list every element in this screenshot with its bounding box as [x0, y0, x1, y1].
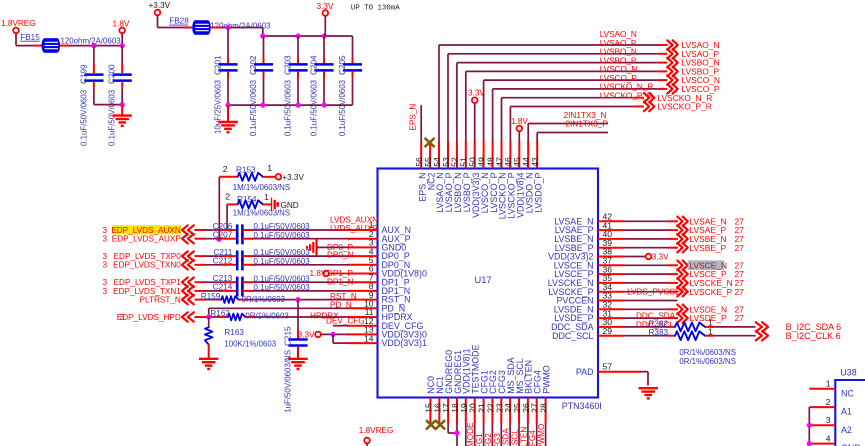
U17 pin 28 PWMO stub [539, 365, 552, 423]
junction GNDREG [454, 430, 459, 435]
junction R153 vertical at row AUX_P [216, 237, 221, 242]
svg-text:1.8VREG: 1.8VREG [1, 19, 36, 28]
svg-text:3: 3 [102, 252, 107, 261]
off-page connector LVSAO_N [667, 40, 719, 50]
capacitor C207 [213, 231, 311, 245]
svg-text:UP TO 130mA: UP TO 130mA [351, 5, 400, 13]
wire net LVSCKE_P from pin 34 [625, 291, 679, 293]
U17 pin 30 DDC_SDA stub [551, 317, 624, 332]
svg-text:3: 3 [102, 235, 107, 244]
ferrite bead FB15 [20, 33, 121, 53]
wire pin 28 continuation [545, 424, 547, 446]
svg-text:EDP_LVDS_AUXN: EDP_LVDS_AUXN [111, 226, 181, 235]
U17 pin 21 CFG1 stub [477, 370, 490, 423]
wire FB28 output [211, 28, 263, 37]
wire net LVSCO_P from pin 48 [493, 74, 668, 142]
svg-text:0R/1%/0603: 0R/1%/0603 [245, 311, 289, 320]
svg-text:0.1uF/50V/0603: 0.1uF/50V/0603 [283, 79, 292, 136]
wire pin 27 continuation [536, 424, 538, 446]
U17 pin 15 NC0 stub [423, 376, 436, 424]
junction HPD node [206, 314, 211, 319]
svg-text:LVDS_AUXN: LVDS_AUXN [330, 215, 378, 224]
wire C199 bottom to C200 bottom [94, 104, 122, 106]
off-page connector LVSAE_N [677, 216, 744, 226]
svg-text:LVSCKO_N_R: LVSCKO_N_R [600, 83, 654, 92]
U17 pin 33 PVCCEN stub [557, 291, 625, 306]
wire pin 20 continuation [474, 424, 476, 446]
svg-text:LVSCKO_P_R: LVSCKO_P_R [600, 92, 653, 101]
ground at pin 3 GND0 [307, 239, 349, 256]
U17 pin 9 RST_N stub [348, 290, 411, 305]
svg-text:PLTRST_N: PLTRST_N [140, 296, 181, 305]
svg-text:C201: C201 [213, 55, 222, 75]
off-page connector LVSBE_P [677, 243, 744, 253]
no-connect X on pin 16 NC1 [435, 420, 445, 429]
off-page connector LVSCKE_P [677, 287, 744, 297]
svg-text:R382: R382 [649, 319, 669, 328]
note UP TO 130mA [351, 5, 400, 13]
U17 pin 16 NC1 stub [432, 376, 445, 424]
wire net LVSDE_P from pin 31 [625, 317, 679, 319]
U17 pin 34 LVSCKE_P stub [548, 282, 624, 297]
svg-text:R159: R159 [201, 292, 221, 301]
svg-text:EDP_LVDS_TXN0: EDP_LVDS_TXN0 [113, 261, 181, 270]
wire net LVSAO_N from pin 54 [439, 30, 667, 142]
svg-text:LVSCO_P: LVSCO_P [600, 74, 638, 83]
svg-text:3.3V: 3.3V [652, 253, 669, 262]
svg-text:MS_SCL: MS_SCL [511, 429, 520, 446]
net label LVDS_PVCCEN [627, 288, 687, 297]
svg-text:C200: C200 [107, 64, 116, 84]
wire net LVSBO_N from pin 52 [457, 48, 667, 142]
wire FB15 to 1.8V rail [60, 45, 122, 47]
junction 3.3V branch [330, 332, 335, 337]
svg-text:CFG3: CFG3 [493, 433, 502, 446]
svg-text:1M/1%/0603/NS: 1M/1%/0603/NS [233, 209, 290, 218]
U17 pin 26 BKLTEN stub [521, 360, 534, 424]
U17 pin 54 LVSAO_N stub [432, 141, 445, 213]
U17 pin 49 LVSCO_N stub [476, 141, 489, 213]
U17 pin 7 DP1_P stub [348, 272, 410, 287]
off-page connector EDP_LVDS_TXN1 [102, 286, 193, 296]
U17 pin 13 VDD(3V3)0 stub [348, 325, 427, 340]
off-page connector LVSBE_N [677, 234, 744, 244]
power symbol +3.3V [149, 1, 171, 15]
wire U38 pins 2-4 chain [808, 407, 810, 446]
off-page connector LVSBO_P [667, 67, 719, 77]
U17 pin 37 LVSCE_N stub [554, 256, 625, 271]
net label CFG1 [475, 433, 484, 446]
wire 1.8VREG to FB15 [16, 33, 42, 46]
capacitor C199 [79, 46, 103, 146]
wire net LVSAE_P from pin 41 [625, 229, 679, 231]
U17 pin 57 PAD [576, 361, 648, 385]
svg-text:LVSBE_P: LVSBE_P [690, 243, 727, 253]
net label CFG2 [484, 433, 493, 446]
resistor R153 [219, 163, 290, 192]
wire PD_N from HPD node [209, 308, 349, 317]
junction bottom rail [260, 103, 265, 108]
net label DP1_N [327, 278, 353, 287]
capacitor C212 [213, 257, 311, 271]
net label DDC_SDA [636, 312, 676, 321]
resistor R154 [225, 192, 290, 218]
wire pin 23 continuation [500, 424, 502, 446]
svg-text:R162: R162 [210, 309, 230, 318]
junction at C200 bottom [120, 102, 125, 107]
ground below R163 [199, 359, 219, 369]
svg-text:4: 4 [826, 434, 831, 444]
net label HPDRX [310, 311, 339, 320]
junction rail at C202 [260, 33, 265, 38]
svg-text:3: 3 [826, 415, 831, 425]
U17 pin 22 CFG2 stub [485, 370, 498, 423]
wire C206 row left [195, 229, 238, 231]
svg-text:C211: C211 [213, 248, 232, 257]
U17 pin 3 GND0 stub [348, 238, 407, 253]
svg-text:LVSBO_P: LVSBO_P [600, 56, 637, 65]
ground below C201 [218, 122, 238, 132]
wire net LVSCE_N from pin 37 [625, 264, 679, 266]
svg-text:1.8V: 1.8V [113, 20, 130, 29]
svg-text:BKLTEN: BKLTEN [519, 427, 528, 446]
U17 pin 1 AUX_N stub [348, 220, 412, 235]
svg-text:120ohm/2A/0603: 120ohm/2A/0603 [210, 21, 271, 30]
svg-text:27: 27 [735, 287, 745, 297]
U17 pin 14 VDD(3V3)1 stub [348, 333, 427, 348]
junction bottom rail [296, 103, 301, 108]
capacitor C206 [213, 222, 311, 236]
svg-text:+3.3V: +3.3V [149, 1, 171, 10]
capacitor C213 [213, 274, 311, 288]
capacitor C201 [213, 28, 237, 134]
junction on 1.8V rail at C199 [91, 43, 96, 48]
svg-text:1.8VREG: 1.8VREG [359, 426, 394, 435]
off-page connector LVSCKO_N_R [644, 93, 712, 103]
U17 pin 11 HPDRX stub [348, 307, 413, 322]
U17 pin 47 LVSCKO_N stub [494, 141, 507, 219]
net label PWMO [537, 424, 546, 446]
resistor R163 [205, 317, 277, 359]
U17 pin 2 AUX_P stub [348, 229, 411, 244]
off-page connector LVSCE_P [677, 269, 744, 279]
svg-text:C214: C214 [213, 283, 233, 292]
svg-text:14: 14 [364, 333, 374, 343]
svg-text:PAD: PAD [576, 367, 594, 377]
svg-text:+3.3V: +3.3V [282, 173, 304, 182]
off-page connector EDP_LVDS_TXP1 [102, 278, 193, 288]
svg-text:3.3V: 3.3V [298, 330, 315, 339]
wire cap bottom rail [228, 104, 353, 106]
svg-text:LVSAO_P: LVSAO_P [600, 39, 637, 48]
svg-text:1.8V: 1.8V [511, 117, 528, 126]
power symbol 1.8V [113, 20, 130, 46]
wire net LVSCE_P from pin 36 [625, 273, 679, 275]
svg-text:B_I2C_CLK 6: B_I2C_CLK 6 [786, 331, 841, 341]
resistor R383 [625, 326, 756, 340]
wire net LVSCO_N from pin 49 [484, 65, 668, 141]
off-page connector LVSBO_N [667, 58, 719, 68]
svg-text:C213: C213 [213, 274, 233, 283]
junction U38 pin 4 [807, 441, 812, 446]
svg-text:TESTMODE: TESTMODE [466, 422, 475, 446]
svg-text:0.1uF/50V/0603: 0.1uF/50V/0603 [309, 79, 318, 136]
U17 pin 19 VDD(1V8)1 stub [459, 348, 472, 423]
junction U38 pin 3 [807, 423, 812, 428]
wire 3.3V distribution rail [263, 35, 353, 37]
wire +3.3V to FB28 [158, 15, 193, 27]
net label DDC_SCL [636, 320, 675, 329]
svg-text:C207: C207 [213, 231, 233, 240]
wire C207 row left [195, 238, 238, 240]
op-amp U17 body (PTN3460I bridge IC) [378, 169, 602, 412]
wire pin 22 continuation [491, 424, 493, 446]
svg-text:1: 1 [708, 326, 713, 336]
svg-text:3: 3 [102, 226, 107, 235]
svg-text:1.8V: 1.8V [310, 269, 327, 278]
ground GND at R154 [272, 198, 299, 212]
svg-text:MS_SDA: MS_SDA [502, 428, 511, 446]
power symbol 3.3V at pin 50 [468, 89, 485, 142]
U17 pin 23 CFG3 stub [494, 370, 507, 423]
svg-text:C205: C205 [338, 55, 347, 75]
svg-text:EDP_LVDS_TXN1: EDP_LVDS_TXN1 [113, 287, 181, 296]
wire pin 21 continuation [483, 424, 485, 446]
ground at PAD [639, 388, 659, 398]
svg-text:C212: C212 [213, 257, 233, 266]
off-page connector EDP_LVDS_HPD [117, 312, 194, 322]
svg-text:PWMO: PWMO [541, 365, 551, 394]
wire pin 26 continuation [527, 424, 529, 446]
wire R154 pin2 down to LVDS_AUXN [226, 204, 228, 230]
U17 pin 20 TESTMODE stub [468, 344, 481, 423]
resistor R382 [625, 318, 756, 332]
svg-text:0.1uF/50V/0603: 0.1uF/50V/0603 [79, 89, 88, 146]
off-page connector LVSCE_N [677, 260, 744, 270]
U17 pin 43 LVSDO_P stub [530, 141, 543, 213]
wire C214 row right [242, 290, 348, 292]
wire pin 19 continuation [465, 424, 467, 446]
net label CFG3 [493, 433, 502, 446]
svg-text:0.1uF/50V/0603: 0.1uF/50V/0603 [249, 79, 258, 136]
junction rail at C204 [322, 33, 327, 38]
net label PD_N [330, 301, 352, 310]
off-page connector LVSCO_P [667, 84, 720, 94]
U17 pin 56 EPS_N stub [414, 141, 427, 202]
svg-text:CFG2: CFG2 [484, 433, 493, 446]
U17 pin 51 LVSBO_P stub [459, 141, 472, 212]
svg-text:DP1_N: DP1_N [327, 278, 353, 287]
U17 pin 5 DP0_N stub [348, 255, 411, 270]
off-page connector B_I2C_SDA [756, 322, 841, 332]
wire C201 to ground [227, 105, 229, 122]
svg-text:27: 27 [735, 313, 745, 323]
svg-text:29: 29 [603, 326, 613, 336]
svg-text:EPS_N: EPS_N [408, 104, 417, 131]
U17 pin 38 VDD(3V3)2 stub [548, 247, 624, 262]
svg-text:3: 3 [102, 278, 107, 287]
wire net LVSAO_P from pin 53 [448, 39, 667, 142]
svg-text:3.3V: 3.3V [317, 2, 334, 11]
svg-text:C199: C199 [79, 64, 88, 84]
capacitor C205 [338, 36, 362, 136]
off-page connector EDP_LVDS_TXN0 [102, 260, 193, 270]
power symbol 1.8V at pin 45 [511, 117, 528, 142]
value label 0R/1%/0603/NS for R382 [679, 348, 736, 357]
wire net LVSCKO_N_R from pin 47 [502, 83, 654, 142]
wire EPS_N from pin 56 [408, 104, 421, 142]
wire PVCCEN from pin 33 [625, 300, 678, 302]
connector U38 body [835, 367, 865, 446]
svg-text:2IN1TX3_P: 2IN1TX3_P [566, 120, 609, 129]
wire R153 pin2 down to LVDS_AUXP [218, 177, 220, 240]
capacitor C200 [107, 46, 131, 146]
off-page connector LVSDE_N [677, 304, 744, 314]
svg-text:3: 3 [102, 261, 107, 270]
wire net 2IN1TX3_P from pin 43 [537, 120, 608, 142]
resistor R162 [195, 309, 349, 321]
power symbol 1.8VREG bottom [359, 426, 394, 446]
svg-text:0.1uF/50V/0603: 0.1uF/50V/0603 [338, 79, 347, 136]
power symbol 3.3V at pin 38 [625, 253, 670, 262]
svg-text:2: 2 [223, 164, 228, 174]
svg-text:0R/1%/0603: 0R/1%/0603 [242, 295, 286, 304]
svg-text:57: 57 [603, 361, 613, 371]
wire C200 to ground [121, 105, 123, 116]
svg-text:LVSAO_N: LVSAO_N [600, 30, 637, 39]
U17 pin 55 NC2 stub [423, 141, 436, 190]
net label MS_SCL [511, 429, 520, 446]
svg-text:10uF/25V/0603: 10uF/25V/0603 [213, 79, 222, 134]
svg-text:FB28: FB28 [169, 17, 189, 26]
svg-text:2: 2 [225, 192, 230, 202]
svg-text:2IN1TX3_N: 2IN1TX3_N [564, 111, 607, 120]
svg-text:3.3V: 3.3V [468, 89, 485, 98]
off-page connector LVSCKO_P_R [644, 102, 712, 112]
svg-text:EDP_LVDS_AUXP: EDP_LVDS_AUXP [112, 235, 182, 244]
net label RST_N [330, 292, 357, 301]
svg-text:43: 43 [530, 157, 540, 167]
wire C211 row left [195, 255, 238, 257]
svg-text:120ohm/2A/0603: 120ohm/2A/0603 [61, 37, 122, 46]
U17 pin 52 LVSBO_N stub [450, 141, 463, 213]
U17 pin 41 LVSAE_P stub [555, 220, 625, 235]
net label LVDS_AUXP [330, 224, 378, 233]
U38 pin 1 NC [809, 379, 854, 399]
off-page connector EDP_LVDS_TXP0 [102, 251, 193, 261]
power symbol 1.8V at pin 6 [310, 269, 349, 278]
wire C213 row right [242, 281, 348, 283]
svg-text:0.1uF/50V/0603: 0.1uF/50V/0603 [107, 89, 116, 146]
U17 pin 27 CFG4 stub [530, 370, 543, 423]
U17 pin 18 GNDREG1 stub [450, 350, 463, 424]
junction bottom rail [322, 103, 327, 108]
U17 pin 8 DP1_N stub [348, 281, 411, 296]
capacitor C215 [284, 300, 308, 413]
svg-text:C202: C202 [249, 55, 258, 75]
wire net LVSBO_P from pin 51 [466, 56, 668, 141]
net label DP1_P [327, 269, 353, 278]
net label DP0_N [327, 251, 353, 260]
wire net LVSBE_N from pin 40 [625, 238, 679, 240]
off-page connector B_I2C_CLK [756, 331, 841, 341]
U17 pin 40 LVSBE_N stub [554, 229, 624, 244]
U17 pin 29 DDC_SCL stub [552, 326, 624, 341]
ferrite bead FB28 [169, 17, 271, 35]
U17 pin 25 MS_SCL stub [512, 358, 525, 423]
svg-text:PWMO: PWMO [537, 424, 546, 446]
wire C212 row right [242, 264, 348, 266]
svg-text:GND: GND [281, 201, 299, 210]
U17 pin 24 MS_SDA stub [503, 357, 516, 423]
U17 pin 45 VDD(1V8)4 stub [512, 141, 525, 218]
capacitor C204 [309, 36, 333, 136]
capacitor C211 [213, 248, 310, 262]
U17 pin 31 LVSDE_P stub [554, 308, 624, 323]
svg-text:VDD(3V3)1: VDD(3V3)1 [382, 338, 427, 348]
svg-text:C206: C206 [213, 222, 233, 231]
svg-text:0R/1%/0603/NS: 0R/1%/0603/NS [679, 357, 736, 366]
value label 0R/1%/0603/NS for R383 [679, 357, 736, 366]
svg-text:A1: A1 [841, 407, 852, 417]
off-page connector LVSCO_N [667, 75, 720, 85]
svg-text:C215: C215 [284, 326, 293, 346]
svg-text:DDC_SCL: DDC_SCL [552, 331, 593, 341]
svg-text:LVDS_AUXP: LVDS_AUXP [330, 224, 378, 233]
off-page connector LVSDE_P [677, 313, 744, 323]
U17 pin 35 LVSCKE_N stub [548, 273, 625, 288]
off-page connector LVSAO_P [667, 49, 719, 59]
net label BKLTEN [519, 427, 528, 446]
U38 pin 4 GND [809, 434, 860, 446]
junction at C201 top [225, 25, 230, 30]
net label LVDS_AUXN [330, 215, 378, 224]
svg-text:R163: R163 [224, 328, 244, 337]
svg-text:DP0_N: DP0_N [327, 251, 353, 260]
wire 3.3V branch to pin 14 [333, 334, 349, 343]
svg-text:3: 3 [102, 287, 107, 296]
svg-text:R383: R383 [649, 328, 669, 337]
resistor R159 [195, 292, 349, 304]
svg-text:1M/1%/0603/NS: 1M/1%/0603/NS [233, 183, 290, 192]
svg-text:EDP_LVDS_TXP0: EDP_LVDS_TXP0 [114, 252, 182, 261]
svg-text:NC: NC [841, 388, 854, 398]
svg-text:CFG1: CFG1 [475, 433, 484, 446]
svg-text:1: 1 [826, 379, 831, 389]
wire C213 row left [195, 281, 238, 283]
svg-text:28: 28 [539, 403, 549, 413]
wire net LVSCKO_P_R from pin 46 [510, 92, 652, 142]
net label DEV_CFG [326, 316, 365, 325]
svg-text:1: 1 [264, 192, 269, 202]
wire C206 row right [242, 229, 348, 231]
svg-text:C203: C203 [283, 55, 292, 75]
svg-text:2: 2 [826, 397, 831, 407]
wire net LVSAE_N from pin 42 [625, 220, 679, 222]
off-page connector LVSAE_P [677, 225, 744, 235]
svg-text:LVSCKO_P_R: LVSCKO_P_R [658, 102, 712, 112]
svg-text:CFG4: CFG4 [528, 430, 537, 446]
junction C215 tap on RST_N [295, 297, 300, 302]
wire C207 row right [242, 238, 348, 240]
svg-text:U17: U17 [475, 275, 492, 285]
U38 pin 3 A2 [809, 415, 852, 435]
U17 pin 50 VDD(3V3)3 stub [468, 141, 481, 218]
svg-text:LVSDO_P: LVSDO_P [533, 172, 543, 212]
U38 pin 2 A1 [809, 397, 852, 417]
U17 pin 4 DP0_P stub [348, 246, 410, 261]
power symbol +3.3V at R153 [276, 173, 305, 182]
